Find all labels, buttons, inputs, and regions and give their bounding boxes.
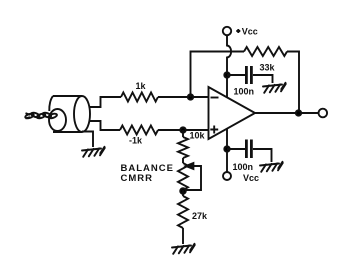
resistor R3 33k <box>244 47 287 56</box>
svg-text:100n: 100n <box>233 162 254 172</box>
ground C2 <box>260 162 283 172</box>
potentiometer P1 wiper <box>185 163 201 190</box>
op-amp U1 <box>209 87 256 139</box>
wire C1 to ground <box>253 75 273 83</box>
node Vcc decoupling <box>224 146 229 151</box>
capacitor C1 100n <box>246 66 251 84</box>
terminal output <box>319 109 328 118</box>
node P1 bottom <box>180 188 186 194</box>
svg-text:1k: 1k <box>136 81 147 91</box>
svg-text:Vcc: Vcc <box>243 173 259 183</box>
wire op-amp to Vcc terminal <box>226 128 228 172</box>
wire R2 to op-amp non-inverting input <box>158 129 209 131</box>
resistor R1 1k <box>121 93 158 102</box>
node output <box>296 110 301 115</box>
ground C1 <box>263 83 286 93</box>
resistor R5 27k <box>178 196 188 228</box>
wire cable bottom to R2 <box>89 121 121 130</box>
node inverting input <box>188 94 193 99</box>
wire R1 to op-amp inverting input <box>158 96 209 98</box>
wire feedback left vertical <box>191 52 245 98</box>
label +Vcc <box>236 27 257 37</box>
twisted pair cable <box>25 112 58 119</box>
wire P1 to R5 <box>182 190 184 196</box>
terminal Vcc <box>223 172 231 180</box>
wire R4 to P1 <box>182 158 184 163</box>
svg-text:10k: 10k <box>190 131 206 141</box>
wire shield to ground <box>82 132 93 148</box>
node +Vcc decoupling <box>224 72 229 77</box>
svg-text:BALANCECMRR: BALANCECMRR <box>121 163 174 184</box>
svg-text:27k: 27k <box>192 211 208 221</box>
ground shield <box>82 147 105 157</box>
wire feedback right to output <box>287 52 299 114</box>
node non-inverting input <box>180 127 185 132</box>
wire C2 to ground <box>253 149 272 162</box>
svg-text:-1k: -1k <box>129 136 143 146</box>
potentiometer P1 <box>178 163 188 190</box>
svg-text:Vcc: Vcc <box>242 27 258 37</box>
wire +Vcc to op-amp with hop <box>227 35 231 97</box>
wire node to C2 <box>227 148 245 150</box>
ground balance network <box>172 244 195 254</box>
wire non-inverting node down <box>182 130 184 137</box>
capacitor C2 100n <box>246 140 251 159</box>
wire R5 to ground <box>182 228 184 244</box>
wire node to C1 <box>227 74 245 76</box>
terminal +Vcc <box>223 27 231 35</box>
cable shield <box>49 96 90 132</box>
wire output <box>255 112 319 114</box>
wire cable top to R1 <box>89 97 122 107</box>
svg-text:33k: 33k <box>260 63 276 73</box>
op-amp plus sign <box>210 126 218 134</box>
svg-text:100n: 100n <box>234 87 255 97</box>
resistor R4 10k <box>178 137 188 158</box>
op-amp minus sign <box>211 97 219 99</box>
resistor R2 1k <box>120 126 158 135</box>
